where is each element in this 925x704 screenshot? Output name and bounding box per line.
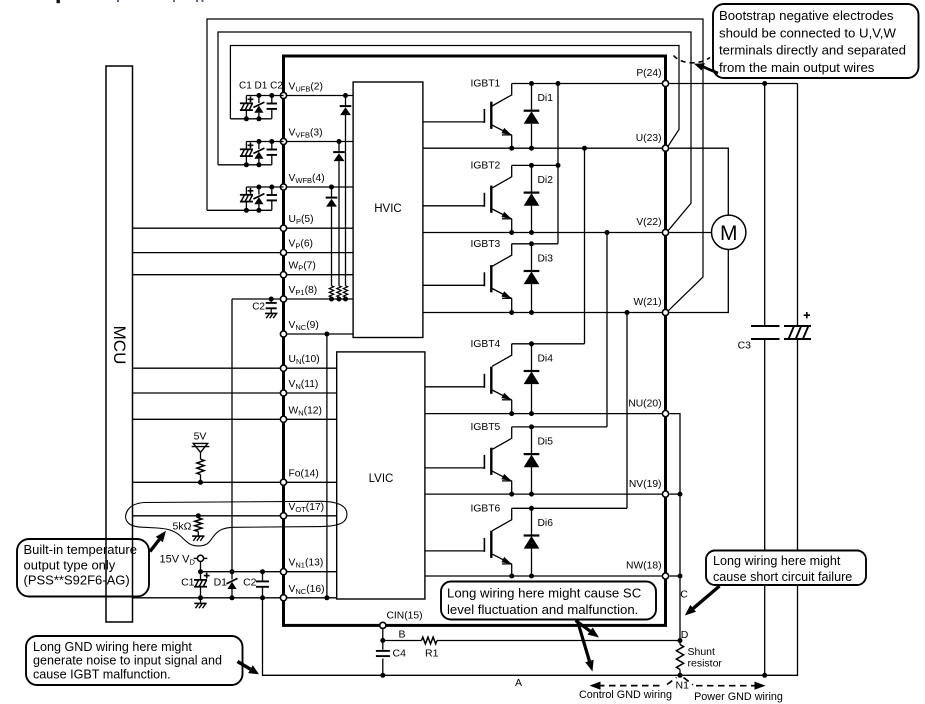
resistor (Fo pull-up) bbox=[200, 452, 202, 459]
arrow: short-circuit note to shunt column bbox=[693, 586, 719, 608]
diode (bootstrap charge, internal) bbox=[345, 96, 347, 107]
callout: short circuit failure note bbox=[706, 551, 866, 586]
svg-text:WN(12): WN(12) bbox=[289, 405, 322, 417]
wire: bootstrap block bottom rail bbox=[230, 118, 271, 120]
arrow: temperature note to lasso bbox=[150, 540, 159, 552]
HVIC block bbox=[353, 82, 423, 338]
wire: bootstrap column down to resistor bbox=[338, 161, 340, 286]
capacitor C2 (bootstrap ceramic) bbox=[271, 187, 273, 195]
resistor (bootstrap charging) bbox=[329, 286, 333, 297]
pin W(21) bbox=[662, 309, 668, 315]
svg-text:Di5: Di5 bbox=[538, 436, 554, 447]
arrow: dashed arc from note to loops bbox=[674, 56, 711, 63]
wire: bootstrap block bottom rail bbox=[218, 164, 272, 166]
svg-text:Di6: Di6 bbox=[538, 518, 554, 529]
wire VVFB(3) to HVIC bbox=[284, 141, 354, 143]
resistor (bootstrap charging) bbox=[343, 286, 347, 297]
capacitor C2 (VP1 decoupling) bbox=[269, 297, 274, 302]
wire: IGBT1 collector rail bbox=[512, 83, 558, 85]
capacitor C2 (bootstrap ceramic) bbox=[271, 96, 273, 104]
wire VN1(13) rail bbox=[201, 571, 337, 573]
ground (below 5kOhm) bbox=[192, 535, 204, 537]
svg-text:Bootstrap negative electrodes: Bootstrap negative electrodes bbox=[719, 8, 894, 23]
svg-text:VP(6): VP(6) bbox=[289, 239, 313, 251]
svg-text:R1: R1 bbox=[425, 647, 439, 659]
svg-text:C1: C1 bbox=[181, 576, 195, 588]
svg-text:cause short circuit failure: cause short circuit failure bbox=[713, 570, 852, 584]
ground (below C1) bbox=[200, 598, 202, 604]
svg-text:Power GND wiring: Power GND wiring bbox=[694, 691, 783, 703]
pin NU(20) bbox=[662, 411, 668, 417]
svg-text:C2: C2 bbox=[252, 301, 265, 312]
svg-text:5kΩ: 5kΩ bbox=[173, 520, 192, 532]
svg-text:C3: C3 bbox=[738, 340, 752, 352]
wire: bootstrap column down to resistor bbox=[331, 206, 333, 285]
wire VN(11) from MCU to LVIC bbox=[133, 392, 337, 394]
svg-text:VN1(13): VN1(13) bbox=[289, 558, 324, 570]
svg-text:terminals directly and separat: terminals directly and separated bbox=[719, 43, 906, 58]
wire VP(6) from MCU to HVIC bbox=[133, 252, 354, 254]
wire: P bus vertical bbox=[557, 84, 559, 244]
IPM module outline bbox=[284, 56, 666, 625]
svg-text:Di3: Di3 bbox=[538, 253, 554, 264]
svg-text:cause IGBT malfunction.: cause IGBT malfunction. bbox=[33, 668, 171, 682]
svg-text:VOT(17): VOT(17) bbox=[289, 502, 325, 514]
callout: long GND wiring note bbox=[26, 636, 243, 685]
svg-text:Di2: Di2 bbox=[538, 175, 554, 186]
svg-text:D1: D1 bbox=[214, 577, 228, 589]
wire: NV(19) to shunt column bbox=[670, 493, 681, 495]
svg-text:Long wiring here might: Long wiring here might bbox=[713, 554, 841, 568]
wire: bootstrap block top rail bbox=[246, 141, 283, 143]
svg-text:U(23): U(23) bbox=[636, 133, 662, 144]
svg-text:should be connected to U,V,W: should be connected to U,V,W bbox=[719, 25, 896, 40]
svg-text:VN(11): VN(11) bbox=[289, 379, 319, 391]
wire: C3 left lead bbox=[764, 84, 766, 327]
callout: built-in temperature output note bbox=[17, 539, 149, 597]
wire: A control-ground line bbox=[383, 674, 680, 676]
resistor R1 bbox=[422, 637, 438, 644]
wire: U(23) to motor bbox=[670, 148, 729, 215]
wire VP1(8) rail bbox=[232, 298, 353, 300]
wire: W-phase bootstrap return loop (outer) bbox=[207, 19, 703, 310]
svg-text:VNC(16): VNC(16) bbox=[289, 584, 325, 596]
wire: emitter rail IGBT1 (U phase) bbox=[423, 147, 666, 149]
capacitor C1 (bootstrap electrolytic) bbox=[245, 142, 247, 150]
svg-text:Control GND wiring: Control GND wiring bbox=[579, 689, 672, 701]
svg-text:B: B bbox=[399, 628, 406, 640]
wire: IGBT5 collector rail bbox=[512, 426, 607, 428]
svg-text:(PSS**S92F6-AG): (PSS**S92F6-AG) bbox=[24, 573, 130, 588]
wire: emitter rail IGBT6 (NW) bbox=[425, 575, 666, 577]
callout: SC level fluctuation note bbox=[441, 582, 656, 620]
lasso around VOT(17) temperature output bbox=[126, 501, 347, 546]
callout: bootstrap negative electrodes note bbox=[713, 4, 919, 78]
wire: NW(18) to shunt column bbox=[670, 575, 681, 577]
wire: IGBT3 collector rail bbox=[512, 243, 558, 245]
svg-text:W(21): W(21) bbox=[633, 297, 661, 308]
svg-text:Fo(14): Fo(14) bbox=[289, 468, 319, 479]
svg-text:IGBT3: IGBT3 bbox=[471, 239, 501, 250]
svg-text:5V: 5V bbox=[194, 431, 207, 443]
pin VP(6) bbox=[280, 250, 286, 256]
MCU block bbox=[106, 66, 133, 622]
wire VUFB(2) to HVIC bbox=[284, 95, 354, 97]
caption text fragment (clipped at top) bbox=[57, 0, 60, 3]
arrow: GND note to A line corner bbox=[238, 662, 251, 670]
wire: control ground drop to A line bbox=[263, 598, 383, 676]
pin VUFB(2) bbox=[280, 92, 286, 98]
arrow: Control GND wiring (dashed) bbox=[598, 678, 677, 686]
wire: P rail to pin P(24) bbox=[558, 83, 666, 85]
pin NW(18) bbox=[662, 573, 668, 579]
LVIC block bbox=[337, 352, 425, 599]
svg-text:A: A bbox=[515, 677, 522, 689]
wire: emitter rail IGBT3 (W phase) bbox=[423, 312, 666, 314]
wire: W output down to IGBT6 collector bbox=[626, 313, 628, 509]
resistor (bootstrap charging) bbox=[337, 286, 341, 297]
wire: B sense line (CIN to shunt top) bbox=[383, 640, 422, 642]
svg-text:V(22): V(22) bbox=[636, 217, 661, 228]
diode D1 (bootstrap block) bbox=[258, 96, 260, 104]
diode D1 (bootstrap block) bbox=[258, 187, 260, 195]
wire: CIN drop to A line bbox=[382, 627, 384, 675]
svg-text:Long GND wiring here might: Long GND wiring here might bbox=[33, 640, 192, 654]
svg-text:C1 D1 C2: C1 D1 C2 bbox=[239, 81, 283, 92]
wire: U output down to IGBT4 collector bbox=[584, 148, 586, 344]
node N1 bbox=[678, 673, 683, 678]
svg-text:IGBT4: IGBT4 bbox=[471, 339, 501, 350]
pin WN(12) bbox=[280, 416, 286, 422]
diode (bootstrap charge, internal) bbox=[331, 187, 333, 198]
wire: bootstrap block top rail bbox=[246, 95, 283, 97]
svg-text:C2: C2 bbox=[243, 576, 257, 588]
pin VN(11) bbox=[280, 390, 286, 396]
wire VNC(16) ground rail bbox=[133, 597, 337, 599]
svg-text:C4: C4 bbox=[393, 648, 407, 660]
pin WP(7) bbox=[280, 272, 286, 278]
svg-text:LVIC: LVIC bbox=[369, 473, 394, 485]
svg-text:NW(18): NW(18) bbox=[626, 561, 661, 572]
svg-text:UP(5): UP(5) bbox=[289, 214, 314, 226]
svg-text:CIN(15): CIN(15) bbox=[387, 610, 423, 621]
pin P(24) bbox=[662, 80, 668, 86]
arrow: SC note to A line bbox=[578, 621, 590, 661]
wire: emitter rail IGBT4 (NU) bbox=[425, 413, 666, 415]
svg-text:Di1: Di1 bbox=[538, 93, 554, 104]
svg-text:output type only: output type only bbox=[24, 557, 116, 572]
svg-text:IGBT2: IGBT2 bbox=[471, 160, 501, 171]
wire: V(22) to motor bbox=[670, 232, 712, 234]
pin CIN(15) bbox=[380, 622, 386, 628]
wire: VP1 to VN1 supply drop bbox=[231, 299, 233, 572]
svg-text:IGBT6: IGBT6 bbox=[471, 503, 501, 514]
svg-text:HVIC: HVIC bbox=[374, 203, 401, 215]
wire: bootstrap column down to resistor bbox=[345, 115, 347, 286]
wire: emitter rail IGBT5 (NV) bbox=[425, 493, 666, 495]
pin VNC(16) bbox=[280, 595, 286, 601]
resistor: shunt resistor bbox=[676, 645, 683, 670]
svg-text:NU(20): NU(20) bbox=[628, 398, 661, 409]
wire: U-phase bootstrap return loop (inner) bbox=[230, 46, 679, 147]
pin V(22) bbox=[662, 229, 668, 235]
wire: bootstrap block top rail bbox=[246, 186, 283, 188]
wire: IGBT4 collector rail bbox=[512, 343, 585, 345]
svg-text:generate noise to input signal: generate noise to input signal and bbox=[33, 654, 222, 668]
pin Fo(14) bbox=[280, 479, 286, 485]
wire UN(10) from MCU to LVIC bbox=[133, 367, 337, 369]
wire: IGBT6 collector rail bbox=[512, 507, 627, 509]
diode (bootstrap charge, internal) bbox=[338, 142, 340, 153]
wire VNC(9) to HVIC bbox=[284, 333, 354, 335]
svg-text:Long wiring here might cause S: Long wiring here might cause SC bbox=[447, 586, 642, 601]
wire: emitter rail IGBT2 (V phase) bbox=[423, 232, 666, 234]
diode D1 (bootstrap block) bbox=[258, 142, 260, 150]
pin NV(19) bbox=[662, 491, 668, 497]
pin VNC(9) bbox=[280, 331, 286, 337]
svg-text:UN(10): UN(10) bbox=[289, 354, 320, 366]
wire: V-phase bootstrap return loop (middle) bbox=[218, 32, 691, 230]
pin U(23) bbox=[662, 145, 668, 151]
pin VVFB(3) bbox=[280, 138, 286, 144]
arrow: Power GND wiring (dashed) bbox=[684, 678, 757, 686]
wire: NU(20) to shunt column bbox=[670, 414, 681, 645]
wire WP(7) from MCU to HVIC bbox=[133, 274, 354, 276]
svg-text:N1: N1 bbox=[676, 680, 690, 692]
svg-text:MCU: MCU bbox=[110, 326, 129, 365]
wire WN(12) from MCU to LVIC bbox=[133, 418, 337, 420]
svg-text:Built-in temperature: Built-in temperature bbox=[24, 542, 137, 557]
pin VWFB(4) bbox=[280, 184, 286, 190]
arrow: SC note to module edge bbox=[576, 621, 591, 632]
capacitor C1 (bootstrap electrolytic) bbox=[245, 96, 247, 104]
svg-text:from the main output wires: from the main output wires bbox=[719, 60, 875, 75]
wire: W(21) to motor bbox=[670, 249, 729, 312]
wire: IGBT2 collector rail bbox=[512, 164, 558, 166]
svg-text:Di4: Di4 bbox=[538, 353, 554, 364]
svg-text:NV(19): NV(19) bbox=[629, 479, 662, 490]
pin UP(5) bbox=[280, 225, 286, 231]
svg-text:M: M bbox=[720, 222, 738, 245]
wire: V output down to IGBT5 collector bbox=[606, 233, 608, 427]
svg-text:P(24): P(24) bbox=[636, 68, 661, 79]
svg-text:IGBT1: IGBT1 bbox=[471, 79, 501, 90]
wire Fo(14) from MCU to LVIC bbox=[133, 481, 337, 483]
pin UN(10) bbox=[280, 365, 286, 371]
wire: bootstrap block bottom rail bbox=[207, 209, 272, 211]
svg-text:Shunt: Shunt bbox=[688, 646, 716, 658]
wire: 15V supply to VN1 rail bbox=[200, 562, 202, 572]
capacitor C1 (bootstrap electrolytic) bbox=[245, 187, 247, 195]
motor M bbox=[712, 215, 746, 249]
svg-text:level fluctuation and malfunct: level fluctuation and malfunction. bbox=[447, 602, 638, 617]
wire UP(5) from MCU to HVIC bbox=[133, 227, 354, 229]
wire VWFB(4) to HVIC bbox=[284, 186, 354, 188]
wire: P(24) rail to C3 bbox=[670, 83, 798, 85]
capacitor C2 (bootstrap ceramic) bbox=[271, 142, 273, 150]
svg-text:resistor: resistor bbox=[688, 657, 723, 669]
svg-text:IGBT5: IGBT5 bbox=[471, 422, 501, 433]
pin VOT(17) bbox=[280, 513, 286, 519]
wire: VNC(9) drop to VNC(16) bbox=[324, 332, 329, 337]
svg-text:C: C bbox=[680, 589, 688, 601]
wire: C3 right lead bbox=[797, 84, 799, 327]
wire VOT(17) from MCU to LVIC bbox=[133, 515, 337, 517]
pin VP1(8) bbox=[280, 296, 286, 302]
pin VN1(13) bbox=[280, 569, 286, 575]
